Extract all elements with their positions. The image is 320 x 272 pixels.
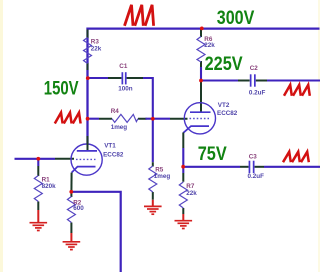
- resistor R2: [67, 197, 75, 223]
- wire R6 to anode node: [200, 67, 202, 82]
- waveform icon sawtooth C2 output: [284, 85, 310, 96]
- junction node cathode VT1: [69, 190, 73, 194]
- svg-text:1meg: 1meg: [154, 173, 171, 180]
- right window edge strip: [318, 0, 320, 272]
- capacitor C3 lead left: [240, 166, 249, 168]
- svg-text:300V: 300V: [217, 8, 255, 29]
- svg-text:75V: 75V: [198, 144, 227, 165]
- resistor R5 lead stubs: [152, 162, 154, 200]
- lead VT2 cathode: [182, 133, 184, 149]
- capacitor C3 lead right: [255, 166, 264, 168]
- ground R5: [144, 200, 162, 214]
- svg-text:150V: 150V: [44, 78, 79, 99]
- svg-text:22k: 22k: [204, 42, 215, 49]
- lead VT1 cathode: [70, 173, 72, 194]
- lead VT2 anode: [200, 82, 202, 112]
- svg-text:225V: 225V: [205, 54, 243, 75]
- svg-text:22k: 22k: [186, 190, 197, 197]
- svg-text:0.2uF: 0.2uF: [248, 173, 265, 180]
- resistor R3 lead stubs: [87, 30, 89, 71]
- svg-text:ECC82: ECC82: [103, 152, 124, 159]
- svg-text:C3: C3: [249, 153, 258, 160]
- resistor R1: [34, 176, 42, 202]
- tube VT2 grid dashes: [190, 118, 210, 120]
- capacitor C1: [122, 72, 124, 84]
- waveform icon sawtooth top: [125, 5, 154, 26]
- capacitor C2 lead right: [256, 80, 267, 82]
- resistor R7: [179, 182, 187, 208]
- wire C1 branch: [90, 77, 109, 79]
- lead VT2 grid: [170, 118, 188, 120]
- resistor R3: [84, 38, 92, 64]
- resistor R6 lead stubs: [200, 30, 202, 68]
- resistor R4 lead stubs: [99, 118, 147, 120]
- svg-text:VT2: VT2: [218, 102, 230, 109]
- left window edge strip: [0, 0, 3, 272]
- ground R7: [175, 214, 193, 229]
- capacitor C1 lead left: [108, 77, 121, 79]
- wire C3 to right edge: [264, 166, 320, 168]
- svg-text:100n: 100n: [118, 86, 133, 93]
- wire top 300V rail: [88, 29, 320, 145]
- wire C2 branch: [203, 79, 239, 81]
- capacitor C2: [250, 74, 252, 86]
- svg-text:820k: 820k: [42, 183, 57, 190]
- wire grid node to VT2: [155, 118, 171, 120]
- wire R4 to grid node: [146, 118, 152, 120]
- tube VT1 cathode: [72, 167, 96, 173]
- lead VT1 grid: [55, 158, 74, 160]
- svg-text:C1: C1: [119, 63, 128, 70]
- resistor R2 lead stubs: [70, 194, 72, 234]
- wire output C3 branch: [185, 166, 240, 168]
- waveform icon sawtooth 150V node: [55, 113, 81, 124]
- tube VT2 envelope: [184, 103, 215, 134]
- svg-text:R3: R3: [91, 39, 100, 46]
- wire VT1 grid input: [15, 158, 56, 160]
- resistor R6: [197, 37, 205, 63]
- capacitor C3: [249, 161, 251, 173]
- tube VT1 anode plate: [77, 150, 97, 152]
- tube VT1 grid dashes: [76, 158, 96, 160]
- tube VT2 anode plate: [190, 111, 211, 113]
- wire grid node down to R5: [152, 119, 154, 163]
- ground R1: [30, 210, 48, 231]
- wire C1 to grid node: [143, 78, 153, 119]
- svg-text:VT1: VT1: [104, 143, 116, 150]
- junction node anode VT1 / R4: [86, 117, 90, 121]
- svg-text:0.2uF: 0.2uF: [249, 90, 266, 97]
- svg-text:1meg: 1meg: [111, 124, 128, 131]
- svg-text:600: 600: [73, 205, 84, 212]
- wire C2 to right edge: [267, 79, 320, 81]
- junction node grid VT2: [151, 117, 155, 121]
- tube VT2 cathode: [183, 126, 209, 133]
- resistor R7 lead stubs: [182, 173, 184, 214]
- resistor R1 lead stubs: [37, 166, 39, 210]
- resistor R4: [112, 114, 138, 122]
- wire VT1 cathode to output corner: [73, 192, 121, 272]
- wire anode VT1 to R4: [90, 118, 100, 120]
- waveform icon sawtooth C3 output: [283, 152, 309, 162]
- junction node cathode VT2 / output: [181, 165, 185, 169]
- svg-text:22k: 22k: [91, 46, 102, 53]
- wire R1 tap down: [37, 160, 39, 166]
- tube VT1 envelope: [71, 144, 102, 175]
- svg-text:ECC82: ECC82: [217, 110, 238, 117]
- resistor R5: [149, 166, 157, 192]
- junction node grid VT1 / R1: [36, 157, 40, 161]
- svg-text:C2: C2: [250, 65, 259, 72]
- junction node 225V / C2: [199, 79, 203, 83]
- svg-text:R4: R4: [111, 108, 120, 115]
- capacitor C2 lead left: [238, 80, 250, 82]
- junction node anode VT1 / C1: [86, 76, 90, 80]
- wire VT2 cathode to R7: [182, 169, 184, 174]
- tube VT1 anode lead inside: [87, 136, 89, 151]
- ground R2: [63, 233, 81, 250]
- capacitor C1 lead right: [127, 77, 143, 79]
- wire VT2 cathode down: [182, 148, 184, 165]
- junction node 300V rail / R6: [200, 27, 204, 31]
